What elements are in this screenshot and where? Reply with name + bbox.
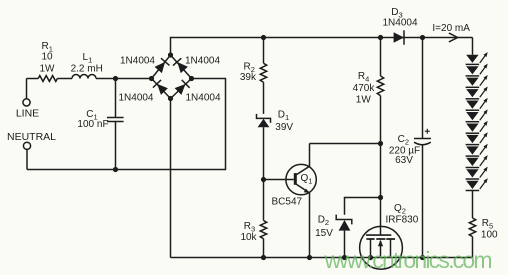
svg-text:15V: 15V: [315, 228, 333, 239]
wire bottom rail: [171, 257, 473, 259]
mosfet Q2 channel bars: [366, 238, 395, 240]
wire LED string to R5: [472, 191, 474, 219]
bridge rectifier diamond wires: [152, 55, 192, 99]
LED 2: [466, 62, 490, 75]
inductor L1: [72, 75, 96, 79]
svg-text:I=20 mA: I=20 mA: [432, 23, 470, 34]
node C2 top: [420, 35, 425, 40]
node bridge right: [189, 76, 194, 81]
node Q2 source: [368, 255, 373, 260]
wire NEUTRAL riser: [26, 149, 28, 169]
node bridge left: [149, 76, 154, 81]
svg-text:1N4004: 1N4004: [186, 92, 221, 103]
LED 7: [466, 120, 490, 133]
svg-text:1N4004: 1N4004: [118, 92, 153, 103]
mosfet Q2 drain lead: [390, 239, 392, 258]
diode bridge D-BR 1N4004: [174, 80, 190, 96]
wire LED column top: [472, 38, 474, 55]
svg-text:10: 10: [41, 52, 53, 63]
wire R2 top: [263, 38, 265, 64]
wire R4 to gate: [380, 96, 382, 236]
diode D3 triangle: [394, 32, 404, 42]
LED 5: [466, 97, 490, 110]
zener D1 triangle: [258, 119, 270, 127]
node D2 bottom: [342, 255, 347, 260]
zener D2 bar: [336, 215, 352, 225]
node Q1 emitter bottom: [307, 255, 312, 260]
LINE terminal: [23, 99, 30, 106]
diode D3 bar: [403, 30, 405, 44]
mosfet Q2 gate bar: [366, 234, 391, 236]
wire LINE terminal riser: [26, 79, 28, 99]
NEUTRAL terminal: [23, 142, 30, 149]
svg-text:1N4004: 1N4004: [120, 55, 155, 66]
node bridge bottom: [168, 96, 173, 101]
resistor R3: [260, 221, 266, 239]
wire C2 top: [422, 38, 424, 139]
capacitor C2 curved plate: [414, 142, 431, 145]
capacitor C1: [107, 118, 124, 122]
wire base: [264, 179, 294, 181]
diode bridge D-BL 1N4004: [153, 80, 169, 96]
transistor Q1 collector: [297, 144, 310, 175]
node gate junction: [378, 195, 383, 200]
LED 8: [466, 131, 490, 144]
node Q1 base junction: [261, 177, 266, 182]
wire R4 top: [380, 38, 382, 76]
wire D2 bottom: [344, 231, 346, 258]
resistor R5: [469, 218, 475, 237]
svg-text:100 nF: 100 nF: [77, 119, 108, 130]
mosfet Q2 source lead: [370, 239, 372, 258]
wire C1 lower: [115, 122, 117, 170]
wire collector rail: [310, 143, 381, 145]
svg-text:1N4004: 1N4004: [382, 18, 417, 29]
wire bridge bottom to ground rail: [170, 99, 172, 258]
node R4 top: [378, 35, 383, 40]
mosfet Q2 circle: [360, 226, 403, 269]
LED 1: [466, 51, 490, 64]
wire R5 bottom: [472, 237, 474, 258]
svg-text:39V: 39V: [275, 122, 293, 133]
capacitor C2 plus sign: [425, 129, 430, 134]
svg-text:www.cntronics.com: www.cntronics.com: [324, 247, 492, 273]
wire gate branch to D2: [345, 198, 381, 215]
transistor Q1 circle: [286, 164, 316, 194]
wire top rail: [171, 38, 473, 56]
svg-text:63V: 63V: [395, 155, 413, 166]
wire neutral rail: [27, 79, 226, 170]
transistor Q1 base bar: [294, 173, 297, 185]
wire D1 to R3: [263, 127, 265, 220]
wire C1 upper: [115, 79, 117, 118]
LED 10: [466, 154, 490, 167]
resistor R2: [260, 63, 266, 82]
node C1 bottom junction: [113, 167, 118, 172]
LED 12: [466, 177, 490, 190]
node R3 bottom: [261, 255, 266, 260]
mosfet Q2 body lead: [380, 241, 382, 258]
svg-text:BC547: BC547: [272, 197, 303, 208]
diode bridge D-TR 1N4004: [173, 58, 189, 74]
resistor R4: [377, 76, 383, 96]
LED 3: [466, 74, 490, 87]
capacitor C2 plus plate: [414, 138, 431, 140]
LED 11: [466, 166, 490, 179]
svg-text:1W: 1W: [356, 94, 372, 105]
LED 6: [466, 108, 490, 121]
diode bridge D-TL 1N4004: [154, 58, 170, 73]
LED 9: [466, 143, 490, 156]
svg-text:2.2 mH: 2.2 mH: [71, 63, 103, 74]
svg-text:10k: 10k: [240, 232, 257, 243]
LED 4: [466, 85, 490, 98]
mosfet Q2 body arrow: [378, 240, 383, 246]
svg-text:LINE: LINE: [16, 108, 39, 120]
wire R2 to D1: [263, 82, 265, 114]
transistor Q1 emitter arrow: [304, 189, 310, 193]
wire LINE input horizontal: [27, 78, 152, 80]
node C1 junction: [113, 76, 118, 81]
resistor R1: [38, 76, 57, 82]
svg-text:100: 100: [481, 229, 498, 240]
node collector to gate line: [378, 141, 383, 146]
node R2 top: [261, 35, 266, 40]
current arrow: [449, 33, 458, 42]
zener D1 bar: [257, 114, 271, 123]
node C2 bottom: [420, 255, 425, 260]
svg-text:470k: 470k: [353, 83, 376, 94]
svg-text:1W: 1W: [40, 64, 56, 75]
svg-text:1N4004: 1N4004: [185, 55, 220, 66]
transistor Q1 emitter: [297, 184, 310, 257]
svg-text:IRF830: IRF830: [386, 214, 419, 225]
wire R3 bottom: [263, 239, 265, 258]
wire C2 bottom: [422, 145, 424, 258]
svg-text:NEUTRAL: NEUTRAL: [7, 131, 56, 143]
zener D2 triangle: [339, 220, 351, 231]
node bridge top: [168, 52, 173, 57]
svg-text:39k: 39k: [240, 72, 257, 83]
